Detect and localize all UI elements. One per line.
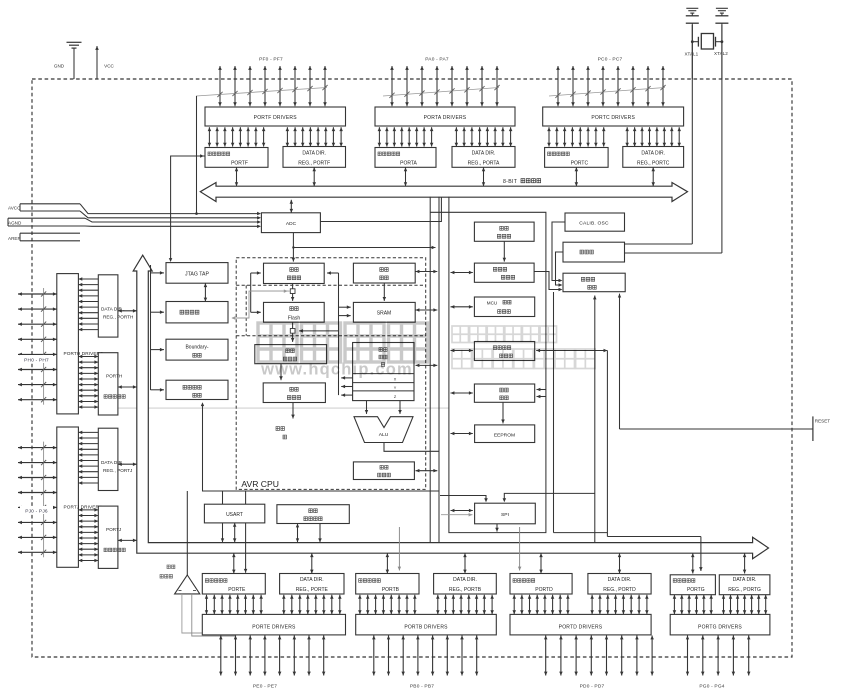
block program counter — [264, 263, 325, 283]
wires PORTB drivers-registers — [358, 595, 494, 614]
wires PORTE registers to bus — [232, 553, 314, 573]
svg-text:PF0 - PF7: PF0 - PF7 — [259, 56, 283, 62]
block PORTG data register — [670, 575, 715, 595]
block PORTE data register — [202, 574, 265, 595]
chip boundary (dashed border) — [32, 79, 792, 657]
wire flash to instruction register — [290, 322, 295, 342]
svg-text:PORTF DRIVERS: PORTF DRIVERS — [254, 115, 298, 121]
svg-text:PORTJ: PORTJ — [106, 527, 121, 532]
wire interrupt right feeds — [537, 388, 546, 398]
power VCC — [95, 46, 99, 79]
svg-text:PORTH DRIVERS: PORTH DRIVERS — [64, 351, 104, 356]
bus central vertical line A — [429, 197, 431, 543]
block PORTB data register — [356, 574, 419, 595]
svg-text:REG., PORTG: REG., PORTG — [728, 587, 761, 593]
svg-text:8-BIT: 8-BIT — [503, 179, 518, 185]
block interrupt unit — [474, 384, 534, 402]
svg-text:PORTD DRIVERS: PORTD DRIVERS — [559, 624, 603, 630]
svg-text:AVR CPU: AVR CPU — [241, 479, 279, 489]
block timer counters — [474, 342, 534, 361]
svg-text:PJ0 - PJ6: PJ0 - PJ6 — [25, 509, 48, 515]
svg-text:REG., PORTE: REG., PORTE — [296, 587, 329, 593]
block DATA DIR REG PORTH — [98, 275, 133, 337]
wire IR to decoder — [279, 364, 283, 381]
block instruction register — [255, 345, 327, 364]
block PORTB DRIVERS — [356, 614, 497, 635]
wire USART to bus — [221, 523, 237, 542]
block SPI — [475, 503, 536, 524]
svg-text:REG., PORTJ: REG., PORTJ — [103, 468, 132, 473]
block general purpose registers XYZ — [353, 343, 414, 401]
svg-text:REG., PORTB: REG., PORTB — [449, 587, 482, 593]
pins PG0 - PG4 arrows — [686, 636, 751, 676]
bus central vertical line B — [438, 197, 440, 543]
block PORTH data register — [98, 353, 125, 415]
svg-text:PORTB DRIVERS: PORTB DRIVERS — [404, 624, 448, 630]
wires PORTA drivers-registers — [378, 127, 513, 146]
svg-text:MCU: MCU — [487, 300, 497, 305]
crystal XTAL — [691, 34, 723, 50]
svg-text:SRAM: SRAM — [377, 311, 391, 317]
label AVR CPU — [241, 479, 279, 489]
block watchdog timer — [474, 263, 534, 282]
wires PORTC drivers-registers — [547, 127, 681, 146]
block PORTF data register — [205, 148, 268, 168]
wire osc to watchdog — [503, 241, 507, 261]
block USART — [204, 504, 264, 523]
wire comparator in- — [192, 594, 236, 636]
svg-text:Flash: Flash — [288, 316, 300, 322]
wire PC right / SRAM feeds — [327, 271, 353, 397]
svg-text:Y: Y — [394, 386, 397, 390]
block PORTF DRIVERS — [205, 107, 346, 126]
svg-text:ADC: ADC — [286, 221, 297, 227]
block internal oscillator — [474, 222, 534, 241]
svg-text:SPI: SPI — [501, 512, 509, 518]
capacitor at XTAL1 — [686, 8, 699, 79]
svg-text:PD0 - PD7: PD0 - PD7 — [580, 683, 605, 689]
wires PORTJ data reg — [78, 508, 98, 562]
svg-text:DATA DIR.: DATA DIR. — [472, 151, 496, 157]
svg-text:PORTE: PORTE — [228, 587, 246, 593]
pins PF0 - PF7 arrows — [218, 66, 327, 106]
label XTAL2 — [714, 51, 728, 56]
wire PORTH reg to bus — [118, 385, 137, 389]
svg-text:PB0 - PB7: PB0 - PB7 — [410, 683, 434, 689]
wires PORTC registers to bus — [575, 167, 655, 186]
label PD0 - PD7 — [580, 683, 605, 689]
wire PC left feed — [251, 271, 261, 314]
label 8-BIT data bus — [503, 179, 541, 186]
wire calib to timing — [552, 222, 565, 282]
pin RESET — [812, 416, 814, 441]
wire SPI feed from timing — [503, 493, 595, 502]
svg-text:PORTB: PORTB — [382, 587, 400, 593]
wire JTAG feeder — [151, 265, 165, 392]
wires PORTG drivers-registers — [673, 595, 768, 614]
block DATA DIR REG PORTD — [588, 574, 651, 595]
svg-text:JTAG TAP: JTAG TAP — [185, 272, 209, 278]
wires PORTH dir reg — [78, 277, 98, 331]
svg-text:PH0 - PH7: PH0 - PH7 — [24, 358, 49, 364]
wire CPU to data bus — [416, 270, 438, 273]
svg-text:DATA DIR.: DATA DIR. — [608, 577, 632, 583]
block instruction decoder — [263, 383, 325, 403]
wires PORTD registers to bus — [539, 553, 621, 573]
svg-text:PC0 - PC7: PC0 - PC7 — [598, 56, 623, 62]
label PF0 - PF7 — [259, 56, 283, 62]
block oscillator — [563, 242, 625, 262]
svg-text:PORTA: PORTA — [400, 160, 417, 166]
wire latch2 feed — [299, 329, 339, 333]
op-amp analog comparator — [175, 575, 200, 594]
wire AVCC AGND AREF bundle — [8, 204, 261, 241]
block Boundary-scan — [166, 339, 228, 360]
wire USART stubs — [223, 491, 246, 504]
wire bus to timing control — [593, 296, 597, 543]
wire CPU to data bus — [416, 364, 438, 368]
svg-text:AREF: AREF — [8, 236, 20, 241]
block JTAG TAP — [166, 263, 228, 284]
label PJ0 - PJ6 — [20, 506, 53, 515]
wire watchdog to timing — [534, 272, 562, 292]
wire comparator in+ — [182, 594, 221, 633]
block CALIB OSC — [565, 213, 625, 231]
wire pull-up rail PORTF — [196, 85, 328, 97]
svg-text:PORTF: PORTF — [231, 160, 248, 166]
svg-text:GND: GND — [54, 64, 65, 69]
capacitor at XTAL2 — [715, 8, 728, 79]
block PORTG DRIVERS — [670, 614, 770, 635]
block status register — [353, 462, 414, 480]
block PORTJ DRIVERS — [57, 427, 102, 567]
svg-text:CALIB. OSC: CALIB. OSC — [579, 221, 609, 227]
wire latch feed — [251, 289, 288, 293]
svg-text:EEPROM: EEPROM — [494, 432, 515, 438]
wire SPI feed 2 — [440, 496, 488, 503]
block DATA DIR REG PORTA — [452, 147, 515, 168]
label PH0 - PH7 — [20, 355, 53, 364]
faint divider line — [118, 407, 449, 409]
wire bus to SPI — [451, 509, 473, 512]
wires PORTF registers to bus — [235, 167, 316, 186]
svg-text:DATA DIR.: DATA DIR. — [300, 577, 324, 583]
block SRAM — [353, 302, 415, 322]
label AGND — [8, 220, 22, 225]
svg-text:PA0 - PA7: PA0 - PA7 — [425, 56, 449, 62]
svg-text:VCC: VCC — [104, 64, 114, 69]
svg-text:Boundary-: Boundary- — [185, 344, 208, 350]
wire OCD to flash latch — [231, 291, 290, 320]
block DATA DIR REG PORTJ — [98, 428, 132, 490]
wires PORTE drivers-registers — [205, 595, 342, 614]
svg-text:PORTC DRIVERS: PORTC DRIVERS — [591, 115, 635, 121]
wire CPU to data bus — [416, 469, 438, 473]
wire bus to interrupt — [451, 391, 473, 395]
wire ADC to bus — [290, 200, 294, 213]
svg-text:PORTG DRIVERS: PORTG DRIVERS — [698, 624, 742, 630]
label analog comparator — [160, 565, 175, 578]
wire bus to EEPROM — [451, 432, 473, 435]
svg-text:PORTD: PORTD — [535, 587, 553, 593]
wire TWI to bus — [296, 524, 322, 543]
block ADC — [261, 213, 320, 233]
block PORTC data register — [545, 148, 609, 168]
wire ADC to program counter — [292, 233, 296, 262]
wire PORTF rail to ADC — [195, 96, 198, 215]
block two-wire serial interface — [277, 505, 349, 524]
block MCU control register — [474, 297, 534, 317]
wire bus to watchdog — [451, 271, 473, 274]
svg-text:PG0 - PG4: PG0 - PG4 — [699, 683, 724, 689]
pins PD0 - PD7 arrows — [544, 636, 654, 676]
label PC0 - PC7 — [598, 56, 623, 62]
wire timer to ports — [536, 349, 702, 571]
wire RESET to timing control — [618, 294, 813, 429]
label PA0 - PA7 — [425, 56, 449, 62]
wire CPU to data bus — [416, 308, 438, 312]
wire registers to ALU — [365, 401, 402, 414]
block EEPROM — [475, 425, 535, 443]
svg-text:REG., PORTA: REG., PORTA — [468, 160, 500, 166]
label VCC — [104, 64, 114, 69]
block PORTA data register — [375, 148, 436, 168]
wire interrupt to EEPROM — [501, 402, 505, 423]
block PORTJ data register — [98, 506, 125, 568]
wire SPI gray feed — [441, 513, 473, 517]
block programming logic — [166, 380, 228, 399]
wire JTAG TAP to OCD — [204, 283, 208, 301]
watermark hqchip — [258, 323, 595, 379]
label PG0 - PG4 — [699, 683, 724, 689]
wire bus to MCU ctrl — [451, 305, 473, 309]
svg-text:REG., PORTF: REG., PORTF — [298, 160, 330, 166]
pins PC0 - PC7 arrows — [556, 66, 665, 106]
label AVCC — [8, 205, 21, 210]
wires PORTJ dir reg — [78, 431, 98, 485]
svg-text:DATA DIR.: DATA DIR. — [302, 151, 326, 157]
block DATA DIR REG PORTE — [280, 574, 344, 595]
block DATA DIR REG PORTB — [434, 574, 497, 595]
wire programming logic return — [201, 402, 439, 491]
label PE0 - PE7 — [253, 683, 277, 689]
svg-text:ALU: ALU — [379, 432, 389, 438]
wires PORTG registers to bus — [691, 553, 746, 573]
label AREF — [8, 236, 20, 241]
svg-text:XTAL1: XTAL1 — [684, 52, 698, 57]
pins PA0 - PA7 arrows — [390, 66, 499, 106]
pins PE0 - PE7 arrows — [219, 636, 325, 676]
wire comparator out — [186, 491, 188, 575]
label GND — [54, 64, 65, 69]
wire direct address to bus — [292, 246, 435, 249]
wire to PORTD reg — [518, 527, 522, 571]
label XTAL1 — [684, 52, 698, 57]
wire PORTJ dir to bus — [118, 463, 137, 467]
wire pull-up rail PORTH — [41, 288, 46, 405]
wire ALU out — [384, 443, 439, 452]
bus vertical-left and bottom data bus — [133, 255, 768, 559]
block DATA DIR REG PORTF — [283, 147, 346, 168]
block DATA DIR REG PORTC — [623, 147, 684, 168]
wire PC to flash — [290, 284, 295, 301]
svg-text:AVCC: AVCC — [8, 205, 21, 210]
region AVR CPU (dashed) — [236, 258, 426, 490]
wire SPI down — [495, 524, 499, 532]
svg-text:XTAL2: XTAL2 — [714, 51, 728, 56]
wire stack pointer to SRAM — [383, 283, 387, 301]
svg-text:REG., PORTC: REG., PORTC — [637, 160, 670, 166]
svg-text:PORTG: PORTG — [687, 587, 705, 593]
wires PORTF drivers-registers — [208, 127, 343, 146]
block PORTA DRIVERS — [375, 107, 515, 126]
wire PORTJ reg to bus — [118, 539, 137, 543]
wire SPI to PORTB reg — [398, 527, 402, 571]
wire USART to PORTE reg — [244, 523, 248, 573]
wire XTAL1 to oscillator — [625, 25, 693, 244]
wire pull-up rail PORTJ — [41, 442, 46, 558]
bus 8-bit data bus (top) — [200, 183, 687, 202]
block on-chip debug — [166, 302, 228, 323]
block PORTD data register — [510, 574, 572, 595]
pins PJ0 - PJ6 arrows — [18, 446, 57, 554]
label control lines — [276, 427, 287, 439]
svg-text:PE0 - PE7: PE0 - PE7 — [253, 683, 277, 689]
wire bus to timer — [451, 349, 473, 352]
wires PORTB registers to bus — [386, 553, 467, 573]
ground GND — [67, 42, 82, 79]
svg-text:REG., PORTH: REG., PORTH — [103, 315, 133, 320]
svg-text:USART: USART — [226, 512, 243, 518]
block DATA DIR REG PORTG — [719, 575, 770, 595]
block stack pointer — [353, 263, 415, 283]
pins PH0 - PH7 arrows — [18, 292, 57, 401]
wire osc to timing — [556, 252, 564, 287]
block timing and control — [563, 273, 625, 292]
svg-text:REG., PORTD: REG., PORTD — [603, 587, 636, 593]
block program flash — [264, 302, 325, 322]
wire PORTH dir to bus — [118, 309, 137, 313]
label PB0 - PB7 — [410, 683, 434, 689]
pins PB0 - PB7 arrows — [372, 636, 478, 676]
svg-text:AGND: AGND — [8, 220, 22, 225]
svg-text:DATA DIR.: DATA DIR. — [733, 577, 757, 583]
wire middle column frame — [430, 197, 546, 533]
label RESET — [815, 418, 831, 423]
wire ADC to vertical bus — [320, 198, 441, 222]
wires PORTA registers to bus — [404, 167, 485, 186]
block PORTH DRIVERS — [57, 274, 103, 414]
svg-text:PORTE DRIVERS: PORTE DRIVERS — [252, 624, 296, 630]
svg-text:PORTC: PORTC — [571, 160, 589, 166]
wire pull-up rail PORTC — [549, 85, 666, 98]
svg-text:RESET: RESET — [815, 418, 831, 423]
svg-text:DATA DIR.: DATA DIR. — [453, 577, 477, 583]
wire timing control drop — [554, 292, 608, 533]
region flash (dashed) — [236, 285, 426, 336]
op-amp ALU — [354, 417, 413, 443]
block PORTE DRIVERS — [202, 614, 345, 635]
svg-text:DATA DIR.: DATA DIR. — [641, 151, 665, 157]
wires PORTH data reg — [78, 355, 98, 409]
wire pull-up rail PORTA — [383, 85, 500, 98]
wire to PORTF register and JTAG TAP — [169, 154, 205, 262]
wires PORTD drivers-registers — [513, 595, 649, 614]
svg-text:PORTA DRIVERS: PORTA DRIVERS — [424, 115, 467, 121]
wire XTAL2 to oscillator — [625, 25, 722, 253]
block PORTD DRIVERS — [510, 614, 651, 635]
wire decoder control lines — [291, 403, 295, 419]
svg-text:PORTJ DRIVERS: PORTJ DRIVERS — [64, 505, 103, 510]
svg-text:PORTH: PORTH — [106, 374, 122, 379]
region CPU top row (dashed) — [236, 284, 426, 286]
svg-text:www.hqchip.com: www.hqchip.com — [260, 361, 413, 379]
block PORTC DRIVERS — [543, 107, 684, 126]
